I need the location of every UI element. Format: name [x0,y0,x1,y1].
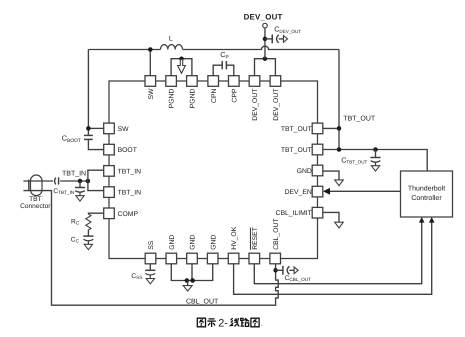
ground arrow bottom [187,281,189,286]
svg-text:HV_OK: HV_OK [231,226,238,250]
svg-text:RESET: RESET [252,227,259,250]
wire TBT_IN split to pins [88,170,104,181]
wire TBT_OUT net to controller [323,150,427,172]
junction DEV_OUT bracket [263,56,268,61]
pin SW (left 1) [104,123,115,134]
svg-text:CPN: CPN [211,89,218,103]
wire COMP pin [88,212,103,215]
svg-text:L: L [169,35,173,42]
capacitor C_TBT_OUT [370,150,380,172]
wire CBL_ILIMIT to ground [323,212,339,222]
pin TBT_OUT (right 1) [312,123,323,134]
wire rail down to TBT_OUT pins [338,50,340,150]
capacitor C_DEV_OUT [265,35,288,44]
pin CBL_ILIMIT (right 5) [312,207,323,218]
svg-text:CBL_ILIMIT: CBL_ILIMIT [276,210,312,217]
pin GND (right 3) [312,165,323,176]
svg-text:PGND: PGND [190,89,197,109]
svg-text:DEV_OUT: DEV_OUT [244,13,283,22]
arrowhead into controller (HV_OK) [429,217,435,223]
svg-text:.: . [261,319,263,328]
wire series cap to TBT_IN split [60,180,88,182]
svg-text:BOOT: BOOT [118,147,137,154]
capacitor C_BOOT [84,134,93,136]
pin PGND (top 2) [166,76,177,87]
pin SS (bottom 1) [145,253,156,264]
pin RESET (bottom 6) [249,253,260,264]
wire CBL_OUT vertical with jogs [23,191,278,306]
pin CPP (top 5) [229,76,240,87]
pin CBL_OUT (bottom 7) [270,253,281,264]
power ground arrow [178,60,186,74]
svg-text:DEV_EN: DEV_EN [285,189,312,196]
svg-text:CBL_OUT: CBL_OUT [186,298,219,305]
capacitor C_P [213,65,222,76]
svg-text:TBT_OUT: TBT_OUT [281,126,312,133]
PGND bracket wires [171,59,192,76]
junction ground arrow [185,278,190,283]
DEV_OUT bracket wires [255,59,276,76]
svg-text:CPP: CPP [231,88,238,102]
wire C_BOOT to BOOT pin [88,139,103,149]
svg-text:SS: SS [148,240,155,250]
pin TBT_IN (left 3) [104,166,115,177]
junction rail TBT_OUT2 [337,147,342,152]
capacitor C_P plates [221,61,223,69]
wire HV_OK to controller [234,222,432,295]
svg-text:SW: SW [118,126,130,133]
svg-text:TBT: TBT [29,196,41,203]
wire SS stub [149,263,151,265]
svg-text:TBT_OUT: TBT_OUT [343,116,376,123]
pin PGND (top 3) [187,76,198,87]
Thunderbolt Controller box U2 [401,171,453,217]
wire SW net top rail left segment [88,49,160,51]
svg-text:GND: GND [169,235,176,250]
svg-text:Controller: Controller [411,194,442,202]
arrowhead into controller (RESET) [419,217,425,223]
pin DEV_EN (right 4) [312,186,323,197]
pin GND (bottom 2) [166,253,177,264]
inductor L [161,45,183,50]
pin BOOT (left 2) [104,144,115,155]
TBT connector contact bar [28,180,30,191]
ground arrow CBL_ILIMIT [335,222,344,228]
svg-text:TBT_OUT: TBT_OUT [281,147,312,154]
IC body outline [109,81,318,259]
TBT connector symbol [31,175,43,196]
RESET overline [249,228,251,250]
junction SW rail [148,47,153,52]
pin CPN (top 4) [208,76,219,87]
pin HV_OK (bottom 5) [228,253,239,264]
series capacitor on TBT_IN line [55,178,56,185]
svg-text:TBT_IN: TBT_IN [118,190,142,197]
svg-text:PGND: PGND [169,89,176,109]
pin DEV_OUT (top 6) [249,76,260,87]
caption glyph tu [197,318,205,327]
series capacitor right plate [58,177,60,184]
svg-text:Connector: Connector [20,203,51,210]
wire SW pin left [88,127,103,129]
wire TBT_OUT pin1 [323,127,339,129]
junction PGND bracket [179,56,184,61]
svg-text:TBT_IN: TBT_IN [118,168,142,175]
wire DEV_EN from controller [329,190,401,192]
svg-text:GND: GND [190,235,197,250]
svg-text:2-: 2- [218,317,228,329]
capacitor C_SS [145,264,155,284]
wire inductor to TBT_OUT rail with hop over DEV_OUT [183,46,340,49]
junction C_TBT_IN tap [78,179,83,184]
wire [23,180,53,182]
ground arrow GND pin [335,180,344,186]
pin DEV_OUT (top 7) [270,76,281,87]
svg-text:DEV_OUT: DEV_OUT [252,89,259,121]
caption glyph xian [231,318,240,327]
wire DEV_OUT vertical [264,28,266,59]
svg-text:GND: GND [297,168,312,175]
pin TBT_OUT (right 2) [312,144,323,155]
svg-text:CBL_OUT: CBL_OUT [273,218,280,249]
wire GND middle [191,264,193,281]
wire R_C to C_C [87,229,89,231]
caption glyph tu [251,318,259,327]
pin COMP (left 5) [104,208,115,219]
svg-text:SW: SW [148,88,155,100]
wire SW left net [87,50,89,136]
junction C_BOOT [86,126,91,131]
caption glyph lu [241,318,250,326]
svg-text:DEV_OUT: DEV_OUT [273,89,280,121]
capacitor C_CBL_OUT [276,266,299,275]
capacitor C_TBT_IN [75,181,85,201]
svg-text:Thunderbolt: Thunderbolt [408,185,445,193]
pin GND (bottom 3) [187,253,198,264]
pin SW (top 1) [145,76,156,87]
svg-text:COMP: COMP [118,211,139,218]
junction TBT_IN split [86,179,91,184]
caption glyph shi [207,319,215,327]
GND pins bracket to ground [171,264,212,281]
junction GND mid [190,278,195,283]
wire SW top pin to rail [149,50,151,76]
wire GND pin to ground [323,171,339,180]
wire RESET to controller [254,222,421,284]
svg-text:GND: GND [210,235,217,250]
DEV_OUT terminal circle [263,23,268,28]
capacitor C_C [83,230,93,250]
pin TBT_IN (left 4) [104,187,115,198]
junction C_TBT_OUT tap [373,147,378,152]
DEV_EN arrowhead [323,188,330,195]
svg-text:TBT_IN: TBT_IN [62,170,86,177]
junction C_DEV_OUT tap [263,37,268,42]
junction TBT_OUT rail [337,126,342,131]
pin GND (bottom 4) [207,253,218,264]
junction C_CBL_OUT tap [273,268,278,273]
resistor R_C [86,214,91,230]
